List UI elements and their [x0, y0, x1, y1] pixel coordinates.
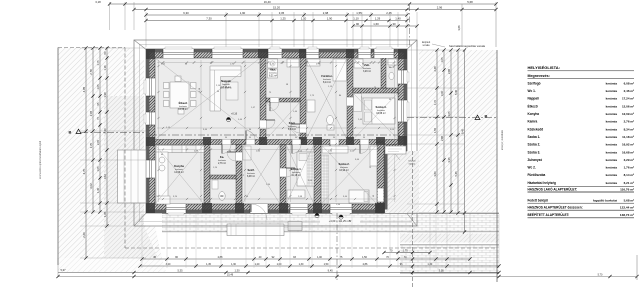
svg-text:kerámia: kerámia [606, 166, 618, 170]
svg-text:90: 90 [373, 195, 375, 197]
svg-text:2,88: 2,88 [218, 256, 223, 259]
svg-text:1,40: 1,40 [395, 17, 401, 21]
svg-text:3,05: 3,05 [279, 11, 285, 15]
svg-text:1,25: 1,25 [280, 17, 286, 21]
svg-text:szomszédos épület telekhatárra: szomszédos épület telekhatárra épült [39, 141, 42, 179]
svg-text:90: 90 [333, 137, 335, 139]
svg-text:2,86: 2,86 [447, 68, 451, 74]
svg-text:90: 90 [363, 137, 365, 139]
svg-text:8,34 m²: 8,34 m² [288, 128, 296, 131]
svg-text:90: 90 [225, 137, 227, 139]
svg-text:3,05: 3,05 [447, 111, 451, 117]
svg-text:6,21 m²: 6,21 m² [269, 75, 277, 78]
svg-text:4,70: 4,70 [82, 168, 86, 174]
svg-text:HASZNOS LAKÓ ALAPTERÜLET:: HASZNOS LAKÓ ALAPTERÜLET: [528, 186, 578, 191]
svg-text:Közl.: Közl. [289, 121, 296, 125]
svg-text:1,16: 1,16 [103, 65, 107, 71]
svg-text:BEÉPÍTETT ALAPTERÜLET:: BEÉPÍTETT ALAPTERÜLET: [528, 212, 570, 217]
svg-text:1,05: 1,05 [96, 84, 100, 90]
svg-text:1,29: 1,29 [375, 17, 381, 21]
svg-text:1,70: 1,70 [433, 99, 437, 105]
svg-text:B: B [485, 114, 488, 119]
svg-text:90: 90 [295, 137, 297, 139]
svg-text:3,02: 3,02 [89, 183, 93, 189]
svg-text:12,06 m²: 12,06 m² [622, 104, 634, 108]
svg-text:kerámia: kerámia [606, 81, 618, 85]
svg-text:12,09 m²: 12,09 m² [174, 171, 184, 174]
svg-text:kerámia: kerámia [606, 150, 618, 154]
svg-text:Háztartási helyiség: Háztartási helyiség [528, 181, 557, 185]
svg-text:5,45: 5,45 [454, 171, 458, 177]
svg-text:Szoba 2.: Szoba 2. [528, 143, 541, 147]
svg-text:Szoba 1.: Szoba 1. [291, 167, 302, 171]
svg-text:1,75: 1,75 [96, 60, 100, 66]
svg-text:vonala: vonala [422, 44, 430, 47]
svg-text:1,20: 1,20 [255, 263, 260, 266]
svg-text:2,86: 2,86 [363, 263, 368, 266]
svg-text:6,30: 6,30 [183, 11, 189, 15]
svg-text:6,08 m²: 6,08 m² [624, 81, 634, 85]
svg-text:5,35: 5,35 [177, 269, 183, 273]
svg-text:kerámia: kerámia [606, 158, 618, 162]
svg-text:1,90: 1,90 [327, 17, 333, 21]
svg-text:90: 90 [249, 137, 251, 139]
svg-text:12,06 m²: 12,06 m² [178, 108, 188, 111]
svg-text:1,45: 1,45 [96, 187, 100, 193]
svg-text:1,05: 1,05 [96, 166, 100, 172]
svg-text:1,56: 1,56 [362, 256, 367, 259]
svg-text:3,18: 3,18 [95, 0, 101, 4]
svg-text:122,44 m²: 122,44 m² [620, 206, 634, 210]
svg-text:3,00: 3,00 [440, 90, 444, 96]
svg-text:2,98: 2,98 [323, 11, 329, 15]
svg-text:B: B [69, 129, 72, 134]
svg-text:9,45: 9,45 [328, 269, 334, 273]
svg-text:5,68 m²: 5,68 m² [624, 199, 634, 203]
svg-text:138,73 m²: 138,73 m² [620, 213, 634, 217]
svg-text:3,29 m²: 3,29 m² [363, 70, 371, 73]
svg-text:Konyha: Konyha [528, 112, 540, 116]
svg-text:2,76 m²: 2,76 m² [218, 162, 226, 165]
svg-text:16,92 m²: 16,92 m² [622, 143, 634, 147]
svg-text:Wc 1.: Wc 1. [528, 89, 536, 93]
svg-text:1,10: 1,10 [353, 17, 359, 21]
svg-text:1,50: 1,50 [324, 263, 329, 266]
svg-text:1,70: 1,70 [89, 142, 93, 148]
svg-text:2,96: 2,96 [437, 6, 443, 10]
svg-text:3,66: 3,66 [457, 25, 461, 31]
svg-text:8,45: 8,45 [461, 128, 465, 134]
svg-text:8,14 m²: 8,14 m² [624, 173, 634, 177]
svg-text:Fürdősz.: Fürdősz. [321, 74, 332, 78]
svg-text:30: 30 [392, 22, 396, 26]
svg-text:2,45: 2,45 [386, 11, 392, 15]
svg-text:1,35: 1,35 [103, 211, 107, 217]
svg-text:Fedett belépő: Fedett belépő [528, 199, 548, 203]
svg-text:2,05: 2,05 [89, 110, 93, 116]
svg-text:Szoba 2.: Szoba 2. [339, 162, 350, 166]
svg-text:Kamra: Kamra [528, 120, 538, 124]
svg-text:Nappali: Nappali [221, 79, 231, 83]
svg-text:Fürdőszoba: Fürdőszoba [528, 173, 546, 177]
svg-text:116,76 m²: 116,76 m² [620, 187, 634, 191]
svg-text:1,90: 1,90 [240, 11, 246, 15]
svg-text:Nappali: Nappali [528, 97, 539, 101]
svg-text:1,00: 1,00 [277, 263, 282, 266]
svg-text:3,10: 3,10 [103, 173, 107, 179]
svg-text:Szélfogó: Szélfogó [528, 81, 541, 85]
svg-text:1,98: 1,98 [103, 92, 107, 98]
svg-text:2,78: 2,78 [89, 69, 93, 75]
svg-text:1,00: 1,00 [317, 256, 322, 259]
svg-text:1,30: 1,30 [234, 269, 240, 273]
svg-text:kerámia: kerámia [606, 173, 618, 177]
svg-text:5,70: 5,70 [598, 274, 603, 277]
svg-text:belt. 2,89 m: belt. 2,89 m [220, 87, 232, 90]
svg-text:kerámia: kerámia [606, 89, 618, 93]
svg-text:2,05: 2,05 [96, 139, 100, 145]
svg-text:Konyha: Konyha [174, 164, 184, 168]
svg-text:kerámia: kerámia [606, 135, 618, 139]
svg-text:kerámia: kerámia [606, 104, 618, 108]
svg-text:11,18 m²: 11,18 m² [622, 135, 634, 139]
svg-text:1,60: 1,60 [373, 22, 379, 26]
svg-text:Zuhanyzó: Zuhanyzó [528, 158, 543, 162]
svg-text:17,24 m²: 17,24 m² [622, 97, 634, 101]
svg-text:Közlekedő: Közlekedő [528, 127, 544, 131]
svg-text:+0,16: +0,16 [231, 113, 238, 116]
svg-text:kerámia: kerámia [606, 127, 618, 131]
svg-text:HELYISÉGLISTA:: HELYISÉGLISTA: [528, 65, 560, 70]
svg-text:2,76 m²: 2,76 m² [624, 120, 634, 124]
svg-text:1,45: 1,45 [206, 263, 211, 266]
svg-text:1,10: 1,10 [301, 17, 307, 21]
svg-text:utcai (el.) telekhatár: utcai (el.) telekhatár [501, 130, 504, 150]
svg-text:7,30: 7,30 [206, 17, 212, 21]
svg-text:8,14 m²: 8,14 m² [323, 81, 331, 84]
svg-text:1,30: 1,30 [231, 263, 236, 266]
svg-text:1,55: 1,55 [433, 127, 437, 133]
svg-text:Wc 2.: Wc 2. [389, 67, 395, 69]
svg-text:Házt.: Házt. [270, 68, 277, 72]
svg-text:Szoba 3.: Szoba 3. [528, 150, 541, 154]
svg-text:Wc 2.: Wc 2. [528, 166, 536, 170]
svg-text:1,76 m²: 1,76 m² [624, 166, 634, 170]
svg-text:12,09 m²: 12,09 m² [622, 112, 634, 116]
svg-text:használati megosztás vonala: használati megosztás vonala [449, 44, 485, 48]
svg-text:15,20: 15,20 [273, 6, 280, 10]
svg-text:Szélf.: Szélf. [247, 168, 254, 172]
svg-text:8,34 m²: 8,34 m² [624, 127, 634, 131]
svg-text:2,20: 2,20 [103, 128, 107, 134]
svg-text:Megnevezés:: Megnevezés: [528, 74, 550, 78]
svg-text:3,20: 3,20 [166, 263, 171, 266]
svg-text:Ka.: Ka. [220, 155, 224, 159]
svg-text:kerámia: kerámia [606, 112, 618, 116]
svg-text:Szoba 3.: Szoba 3. [376, 105, 387, 109]
svg-text:5,45: 5,45 [454, 89, 458, 95]
svg-text:11,18 m²: 11,18 m² [291, 174, 300, 177]
svg-text:kerámia: kerámia [606, 97, 618, 101]
svg-text:kerámia: kerámia [606, 143, 618, 147]
svg-text:kerámia: kerámia [606, 120, 618, 124]
svg-text:6,21 m²: 6,21 m² [624, 181, 634, 185]
svg-text:3,05: 3,05 [439, 269, 445, 273]
svg-text:3,35: 3,35 [447, 157, 451, 163]
svg-text:90: 90 [356, 22, 360, 26]
svg-text:2,86: 2,86 [440, 135, 444, 141]
svg-text:2,60: 2,60 [82, 232, 86, 238]
svg-text:1,70: 1,70 [403, 249, 409, 253]
svg-text:5,68: 5,68 [467, 0, 473, 4]
svg-text:1,30: 1,30 [299, 263, 304, 266]
svg-text:6,08 m²: 6,08 m² [247, 175, 255, 178]
svg-text:Étkező: Étkező [528, 103, 538, 108]
svg-text:3,60: 3,60 [433, 171, 437, 177]
svg-text:Szoba 1.: Szoba 1. [528, 135, 541, 139]
svg-text:1,55: 1,55 [356, 11, 362, 15]
svg-text:fagyálló burkolat: fagyálló burkolat [593, 199, 617, 203]
svg-text:15,46: 15,46 [227, 274, 234, 277]
svg-text:16,68 m²: 16,68 m² [622, 150, 634, 154]
svg-text:16,68 m²: 16,68 m² [376, 112, 386, 115]
svg-text:kerámia: kerámia [606, 181, 618, 185]
svg-text:16,40: 16,40 [264, 0, 271, 4]
svg-text:2,46 m²: 2,46 m² [624, 89, 634, 93]
svg-text:HASZNOS ALAPTERÜLET összesen:: HASZNOS ALAPTERÜLET összesen: [528, 205, 583, 210]
svg-text:1,05: 1,05 [440, 57, 444, 63]
svg-text:5,37: 5,37 [60, 268, 66, 272]
svg-text:+4,00 = 111,25 mBf: +4,00 = 111,25 mBf [329, 219, 352, 223]
svg-text:2,48: 2,48 [433, 66, 437, 72]
svg-text:3,29 m²: 3,29 m² [624, 158, 634, 162]
svg-text:4,85: 4,85 [82, 86, 86, 92]
svg-text:16,92 m²: 16,92 m² [339, 169, 349, 172]
svg-text:Zuh.: Zuh. [364, 63, 370, 67]
